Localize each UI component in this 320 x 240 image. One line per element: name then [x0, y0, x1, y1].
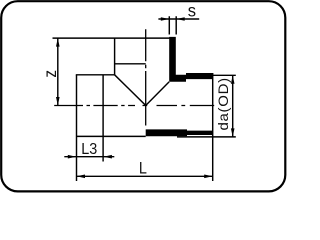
svg-text:L3: L3 [81, 140, 97, 158]
svg-text:z: z [40, 70, 60, 78]
svg-text:L: L [139, 160, 147, 178]
svg-text:da(OD): da(OD) [216, 77, 232, 130]
svg-text:s: s [188, 0, 197, 21]
